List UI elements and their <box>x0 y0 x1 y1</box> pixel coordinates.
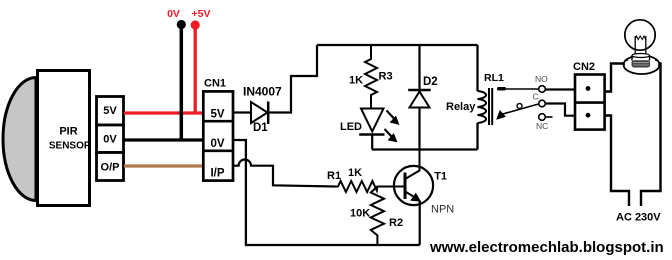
PIR terminal O/P <box>97 153 124 181</box>
T1 base bar <box>404 173 407 200</box>
wire black 0V horizontal <box>124 138 203 141</box>
wire D1 to top rail (staircase) <box>270 45 318 113</box>
wire lower rail <box>372 148 478 150</box>
resistor R3 <box>365 45 377 109</box>
wire CN1 I/P with hop <box>233 160 335 187</box>
svg-text:Relay: Relay <box>446 101 476 113</box>
node 0V dot <box>177 20 186 29</box>
svg-text:5V: 5V <box>103 105 117 117</box>
svg-text:LED: LED <box>340 121 362 133</box>
svg-text:10K: 10K <box>350 208 370 220</box>
svg-text:R1: R1 <box>327 170 341 182</box>
resistor R1 <box>335 181 405 192</box>
wire CN2 bottom to AC left <box>605 116 629 207</box>
svg-text:NC: NC <box>536 121 548 131</box>
transistor T1 <box>394 166 433 205</box>
contact NO circle <box>539 86 546 93</box>
wire CN2 top to bulb <box>605 64 625 92</box>
bulb screw base <box>632 60 651 67</box>
svg-text:0V: 0V <box>210 138 224 150</box>
svg-text:D1: D1 <box>253 122 268 134</box>
svg-text:RL1: RL1 <box>484 72 504 84</box>
bulb collar <box>632 56 650 61</box>
svg-text:CN2: CN2 <box>573 61 595 73</box>
svg-text:IN4007: IN4007 <box>243 85 282 99</box>
LED arrow 2 <box>385 129 393 137</box>
svg-text:C: C <box>533 92 539 102</box>
svg-text:5V: 5V <box>210 108 224 120</box>
wire CN1 5V to D1 <box>233 111 251 113</box>
svg-text:R2: R2 <box>389 217 403 229</box>
svg-text:www.electromechlab.blogspot.in: www.electromechlab.blogspot.in <box>429 239 664 256</box>
T1 collector <box>406 150 420 179</box>
svg-text:O/P: O/P <box>101 161 120 173</box>
LED <box>361 109 384 132</box>
svg-text:D2: D2 <box>423 76 438 88</box>
PIR sensor body <box>38 71 90 206</box>
svg-text:0V: 0V <box>167 8 180 20</box>
wire NO to CN2 <box>545 88 575 90</box>
T1 emitter <box>406 192 419 200</box>
svg-text:+5V: +5V <box>192 8 211 20</box>
PIR terminal 0V <box>97 125 124 153</box>
svg-text:1K: 1K <box>348 167 362 179</box>
relay core lines <box>489 88 492 125</box>
svg-text:NO: NO <box>535 74 548 84</box>
relay armature <box>501 104 539 115</box>
svg-text:T1: T1 <box>434 171 447 183</box>
svg-text:CN1: CN1 <box>204 78 226 90</box>
wire bulb to AC right <box>641 64 661 207</box>
relay contact NO fixed stub <box>497 87 506 91</box>
diode D1 <box>251 102 268 123</box>
svg-text:NPN: NPN <box>431 204 454 216</box>
PIR terminal 5V <box>97 97 124 126</box>
relay coil loops <box>478 91 487 123</box>
wire CN1 0V down to bottom rail <box>233 140 420 245</box>
holder left ear <box>624 60 628 66</box>
bulb globe <box>625 20 655 50</box>
node +5V dot <box>191 20 200 29</box>
wire NO <box>506 88 539 90</box>
wire C to CN2 <box>545 104 575 116</box>
svg-text:SENSOR: SENSOR <box>49 141 92 152</box>
relay RL1 coil branch <box>476 45 478 150</box>
PIR sensor dome <box>3 78 36 201</box>
svg-text:I/P: I/P <box>210 168 224 180</box>
wire top rail <box>317 44 478 46</box>
wire red +5V vertical <box>194 25 197 113</box>
svg-text:0V: 0V <box>103 133 117 145</box>
holder right ear <box>655 60 659 66</box>
bulb stem <box>635 36 646 54</box>
lamp holder <box>624 55 660 74</box>
LED arrow 1 <box>387 111 395 120</box>
diode D2 <box>418 45 420 90</box>
wire brown O/P horizontal <box>124 164 203 167</box>
wire black 0V vertical <box>180 25 184 141</box>
svg-text:1K: 1K <box>349 75 363 87</box>
contact C circle <box>539 100 546 107</box>
resistor R2 <box>371 187 384 246</box>
wire red 5V horizontal <box>124 111 203 114</box>
contact NC circle <box>539 114 546 121</box>
svg-text:PIR: PIR <box>59 126 77 138</box>
svg-text:AC 230V: AC 230V <box>616 212 661 224</box>
wire NC stub <box>545 116 552 118</box>
svg-text:R3: R3 <box>379 71 393 83</box>
